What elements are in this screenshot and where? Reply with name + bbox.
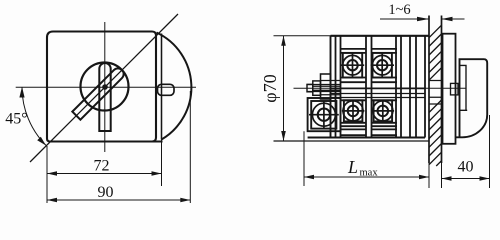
svg-text:40: 40 <box>458 159 474 176</box>
dimension 45deg: arc <box>22 87 46 146</box>
dimension 40: arrowheads <box>442 176 452 181</box>
dimension phi70: line <box>283 36 285 141</box>
side view: mid horizontal lines <box>331 87 426 89</box>
dimension 72: right extension line <box>161 140 163 187</box>
dimension 45deg: top arrowhead <box>19 87 24 98</box>
side view: horizontal centerline <box>294 87 466 89</box>
side view: handle profile <box>456 59 487 137</box>
terminal screw lower 1: square <box>344 100 363 121</box>
dimension 90: line <box>47 199 190 201</box>
terminal screw lower 2: circles and cross <box>373 101 393 121</box>
panel wall: left edge <box>428 16 430 164</box>
dimension 90: arrowheads <box>47 198 57 203</box>
svg-text:72: 72 <box>94 158 110 175</box>
front view: rear plate edge line <box>161 34 163 140</box>
dimension 40: right extension line <box>489 115 491 188</box>
dimension Lmax: arrowheads <box>304 175 314 180</box>
svg-text:L: L <box>347 157 358 177</box>
dimension 45deg: bottom arrowhead <box>37 137 46 146</box>
side view: lower-left terminal block outer <box>308 98 341 131</box>
dimension Lmax: right extension line <box>428 163 430 188</box>
dimension 40: line <box>442 178 490 180</box>
side view: lower terminal block lines <box>341 100 398 135</box>
side view: section divider lines <box>330 36 332 138</box>
dimension 1~6: right line and arrow <box>442 18 465 20</box>
front view: handle at 45 deg position <box>72 66 126 120</box>
dimension phi70: bottom extension line <box>274 140 430 142</box>
front view: center dot <box>102 84 108 90</box>
dimension 72: left extension line <box>46 146 48 203</box>
front view: bottom edge extension to arc <box>152 141 163 143</box>
front view: horizontal centerline <box>16 86 196 88</box>
terminal screw lower-left: circles and cross <box>312 103 335 126</box>
panel wall: shaft hole edges <box>429 81 442 105</box>
svg-text:1~6: 1~6 <box>388 2 410 18</box>
svg-text:max: max <box>360 168 379 179</box>
dimension Lmax: left extension line <box>303 131 305 186</box>
side view: handle shaft rect <box>451 83 459 95</box>
dimension 72: line <box>47 173 162 175</box>
front view: locating tab <box>158 84 175 95</box>
front view: handle vertical position <box>99 63 110 131</box>
side view: front plate <box>443 34 456 144</box>
front view: 45 degree diagonal line <box>30 14 178 162</box>
side view: shaft detail lines <box>307 81 341 95</box>
dimension phi70: arrowheads <box>281 36 286 46</box>
svg-text:φ70: φ70 <box>260 74 280 102</box>
dimension 72: arrowheads <box>47 171 57 176</box>
panel wall: right edge <box>441 16 443 164</box>
dimension 90: right extension line <box>189 91 191 203</box>
side view: stepped rear shaft <box>321 74 331 99</box>
terminal screw upper 2: circles and cross <box>372 55 392 75</box>
front view: mounting plate outline <box>47 32 156 142</box>
terminal screw lower 1: circles and cross <box>343 101 363 121</box>
dimension Lmax: line <box>304 176 429 178</box>
dimension 40: left extension line <box>441 163 443 188</box>
side view: handle hub notch <box>460 65 468 110</box>
front view: knob circle <box>81 63 129 111</box>
terminal screw lower-left: square <box>311 101 336 129</box>
dimension 1~6: left line and arrow <box>380 18 429 20</box>
side view: upper terminal block lines <box>341 49 398 82</box>
terminal screw upper 1: circles and cross <box>343 55 363 75</box>
front view: barrel arc bulge <box>157 33 192 140</box>
terminal screw upper 2: square <box>373 53 392 78</box>
terminal screw lower 2: square <box>374 100 393 121</box>
terminal screw upper 1: square <box>343 53 362 78</box>
svg-text:90: 90 <box>98 184 114 201</box>
front view: vertical centerline <box>104 22 106 152</box>
dimension phi70: top extension line <box>274 35 331 37</box>
side view: body top edge <box>331 35 430 37</box>
svg-text:45°: 45° <box>5 111 27 128</box>
panel wall: hatching <box>429 25 442 166</box>
side view: body bottom edge <box>308 137 425 139</box>
